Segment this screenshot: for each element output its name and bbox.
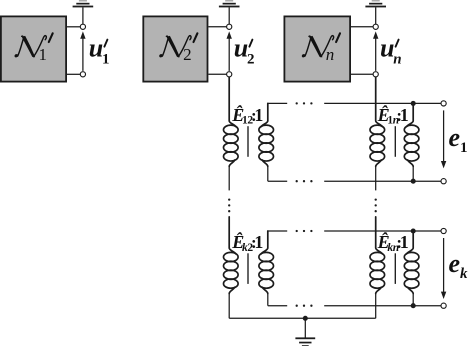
svg-text:2: 2 xyxy=(247,52,255,68)
svg-text:2: 2 xyxy=(183,45,192,64)
svg-text:1: 1 xyxy=(254,232,263,252)
svg-text:1: 1 xyxy=(400,232,409,252)
svg-text:1: 1 xyxy=(254,105,263,125)
svg-text:1: 1 xyxy=(400,105,409,125)
svg-text:n: n xyxy=(326,45,335,64)
svg-text:1: 1 xyxy=(102,52,110,68)
svg-text:n: n xyxy=(393,52,401,68)
svg-text:1: 1 xyxy=(38,45,47,64)
